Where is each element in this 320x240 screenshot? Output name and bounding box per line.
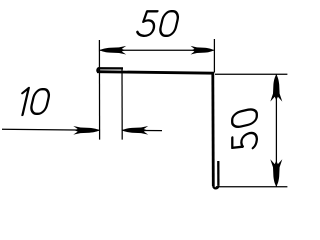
dimension line for 10, right outside segment [122,129,162,131]
dimension line for 50-right (vertical) [275,75,277,187]
extension line at x=122 (dim 10) [121,68,123,140]
profile: top hem inner line (thick outline) [99,67,124,69]
profile: right vertical flange (thick outline) [211,72,214,186]
arrowhead: dim 50-top left (points left) [100,46,126,55]
arrowhead: dim 50-right top (points up) [270,75,282,102]
extension line at y=74 (dim 50-right, top) [215,73,287,75]
value label "50" (right vertical dimension, rotated) [232,108,257,153]
arrowhead: dim 10 left (points right, from outside) [73,126,99,135]
profile: top horizontal flange (thick outline) [97,72,214,74]
arrowhead: dim 50-right bottom (points down) [270,159,282,186]
value label "10" (hem width dimension) [17,88,51,115]
profile: bottom hem inner line (thick outline) [217,161,219,186]
dimension line for 50-top [100,49,214,51]
profile: top hem 180-degree fold arc [98,68,99,72]
profile: bottom hem 180-degree fold arc [213,186,218,189]
arrowhead: dim 10 right (points left, from outside) [122,126,148,135]
extension line at x=99 (shared by dims 50-top and 10) [98,40,100,140]
value label "50" (top dimension) [136,11,179,36]
dimension line for 10, left outside segment [2,129,100,130]
extension line at x=214 (dim 50-top, right) [213,39,215,73]
extension line at y=187 (dim 50-right, bottom) [216,186,288,188]
arrowhead: dim 50-top right (points right) [191,46,214,55]
